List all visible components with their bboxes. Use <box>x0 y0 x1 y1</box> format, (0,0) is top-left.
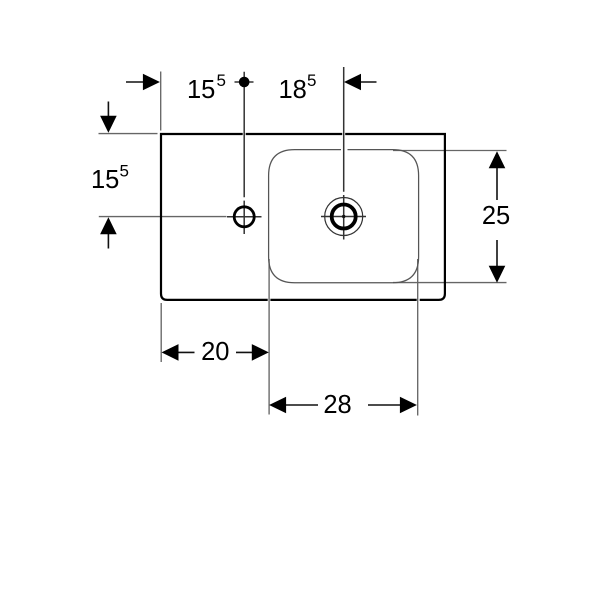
dimension line 25 with text gap <box>496 168 498 267</box>
dimension tail: top dim right <box>360 81 377 83</box>
svg-text:25: 25 <box>482 202 510 230</box>
drain hole centre dot <box>342 215 345 218</box>
centerline: tap hole vertical <box>243 72 245 234</box>
arrowhead: 20 dim pointing left <box>162 344 179 361</box>
extension line: left edge vertical up to top dimension <box>160 72 162 131</box>
extension line: outline left edge downward (for 20 dim) <box>160 303 162 362</box>
dimension tail: top dim left <box>126 81 145 83</box>
dimension line 20 with text gap <box>177 351 253 353</box>
svg-text:5: 5 <box>307 71 316 90</box>
extension line: outline top edge leftward (for 15.5 vertical dim) <box>99 133 158 135</box>
dimension dot at tap centerline <box>239 77 250 88</box>
extension line: basin right edge downward (for 28 dim) <box>417 259 419 416</box>
svg-text:5: 5 <box>120 162 129 181</box>
svg-text:15: 15 <box>91 166 119 194</box>
arrowhead: 28 dim pointing right <box>400 397 417 414</box>
svg-text:28: 28 <box>323 391 351 419</box>
dimension tail: left dim lower <box>107 233 109 249</box>
washbasin outer outline <box>161 134 445 300</box>
dimension line 28 with text gap <box>285 404 402 406</box>
svg-text:18: 18 <box>279 76 307 104</box>
arrowhead: 25 dim pointing down <box>489 266 506 283</box>
arrowhead: left dim pointing up at tap centre line <box>100 217 117 234</box>
arrowhead: top dim pointing right at outline left edge <box>143 74 160 91</box>
basin inner rounded outline <box>269 150 419 283</box>
drain hole bold circle <box>332 205 356 229</box>
svg-text:20: 20 <box>201 338 229 366</box>
extension line: tap hole centre leftward (for 15.5 vertical dim) <box>99 216 227 218</box>
arrowhead: 25 dim pointing up <box>489 151 506 168</box>
extension line: basin top edge rightward (for 25 dim) <box>393 150 507 152</box>
drain hole outer thin circle <box>325 198 363 236</box>
extension line: basin bottom edge rightward (for 25 dim) <box>393 282 507 284</box>
extension line: basin left edge downward (for 20 and 28 dims) <box>268 259 270 415</box>
svg-text:15: 15 <box>187 76 215 104</box>
arrowhead: left dim pointing down at outline top <box>100 116 117 133</box>
centerline: drain hole vertical <box>343 67 345 240</box>
arrowhead: 20 dim pointing right <box>252 344 269 361</box>
tap hole circle <box>234 207 254 227</box>
arrowhead: top dim pointing left at drain centerline <box>344 74 361 91</box>
arrowhead: 28 dim pointing left <box>269 397 286 414</box>
centerline: tap hole horizontal crosshair <box>227 216 262 218</box>
centerline: tick through dimension dot <box>235 81 254 83</box>
centerline: drain hole horizontal crosshair <box>321 216 366 218</box>
svg-text:5: 5 <box>217 71 226 90</box>
dimension tail: left dim upper <box>107 102 109 118</box>
